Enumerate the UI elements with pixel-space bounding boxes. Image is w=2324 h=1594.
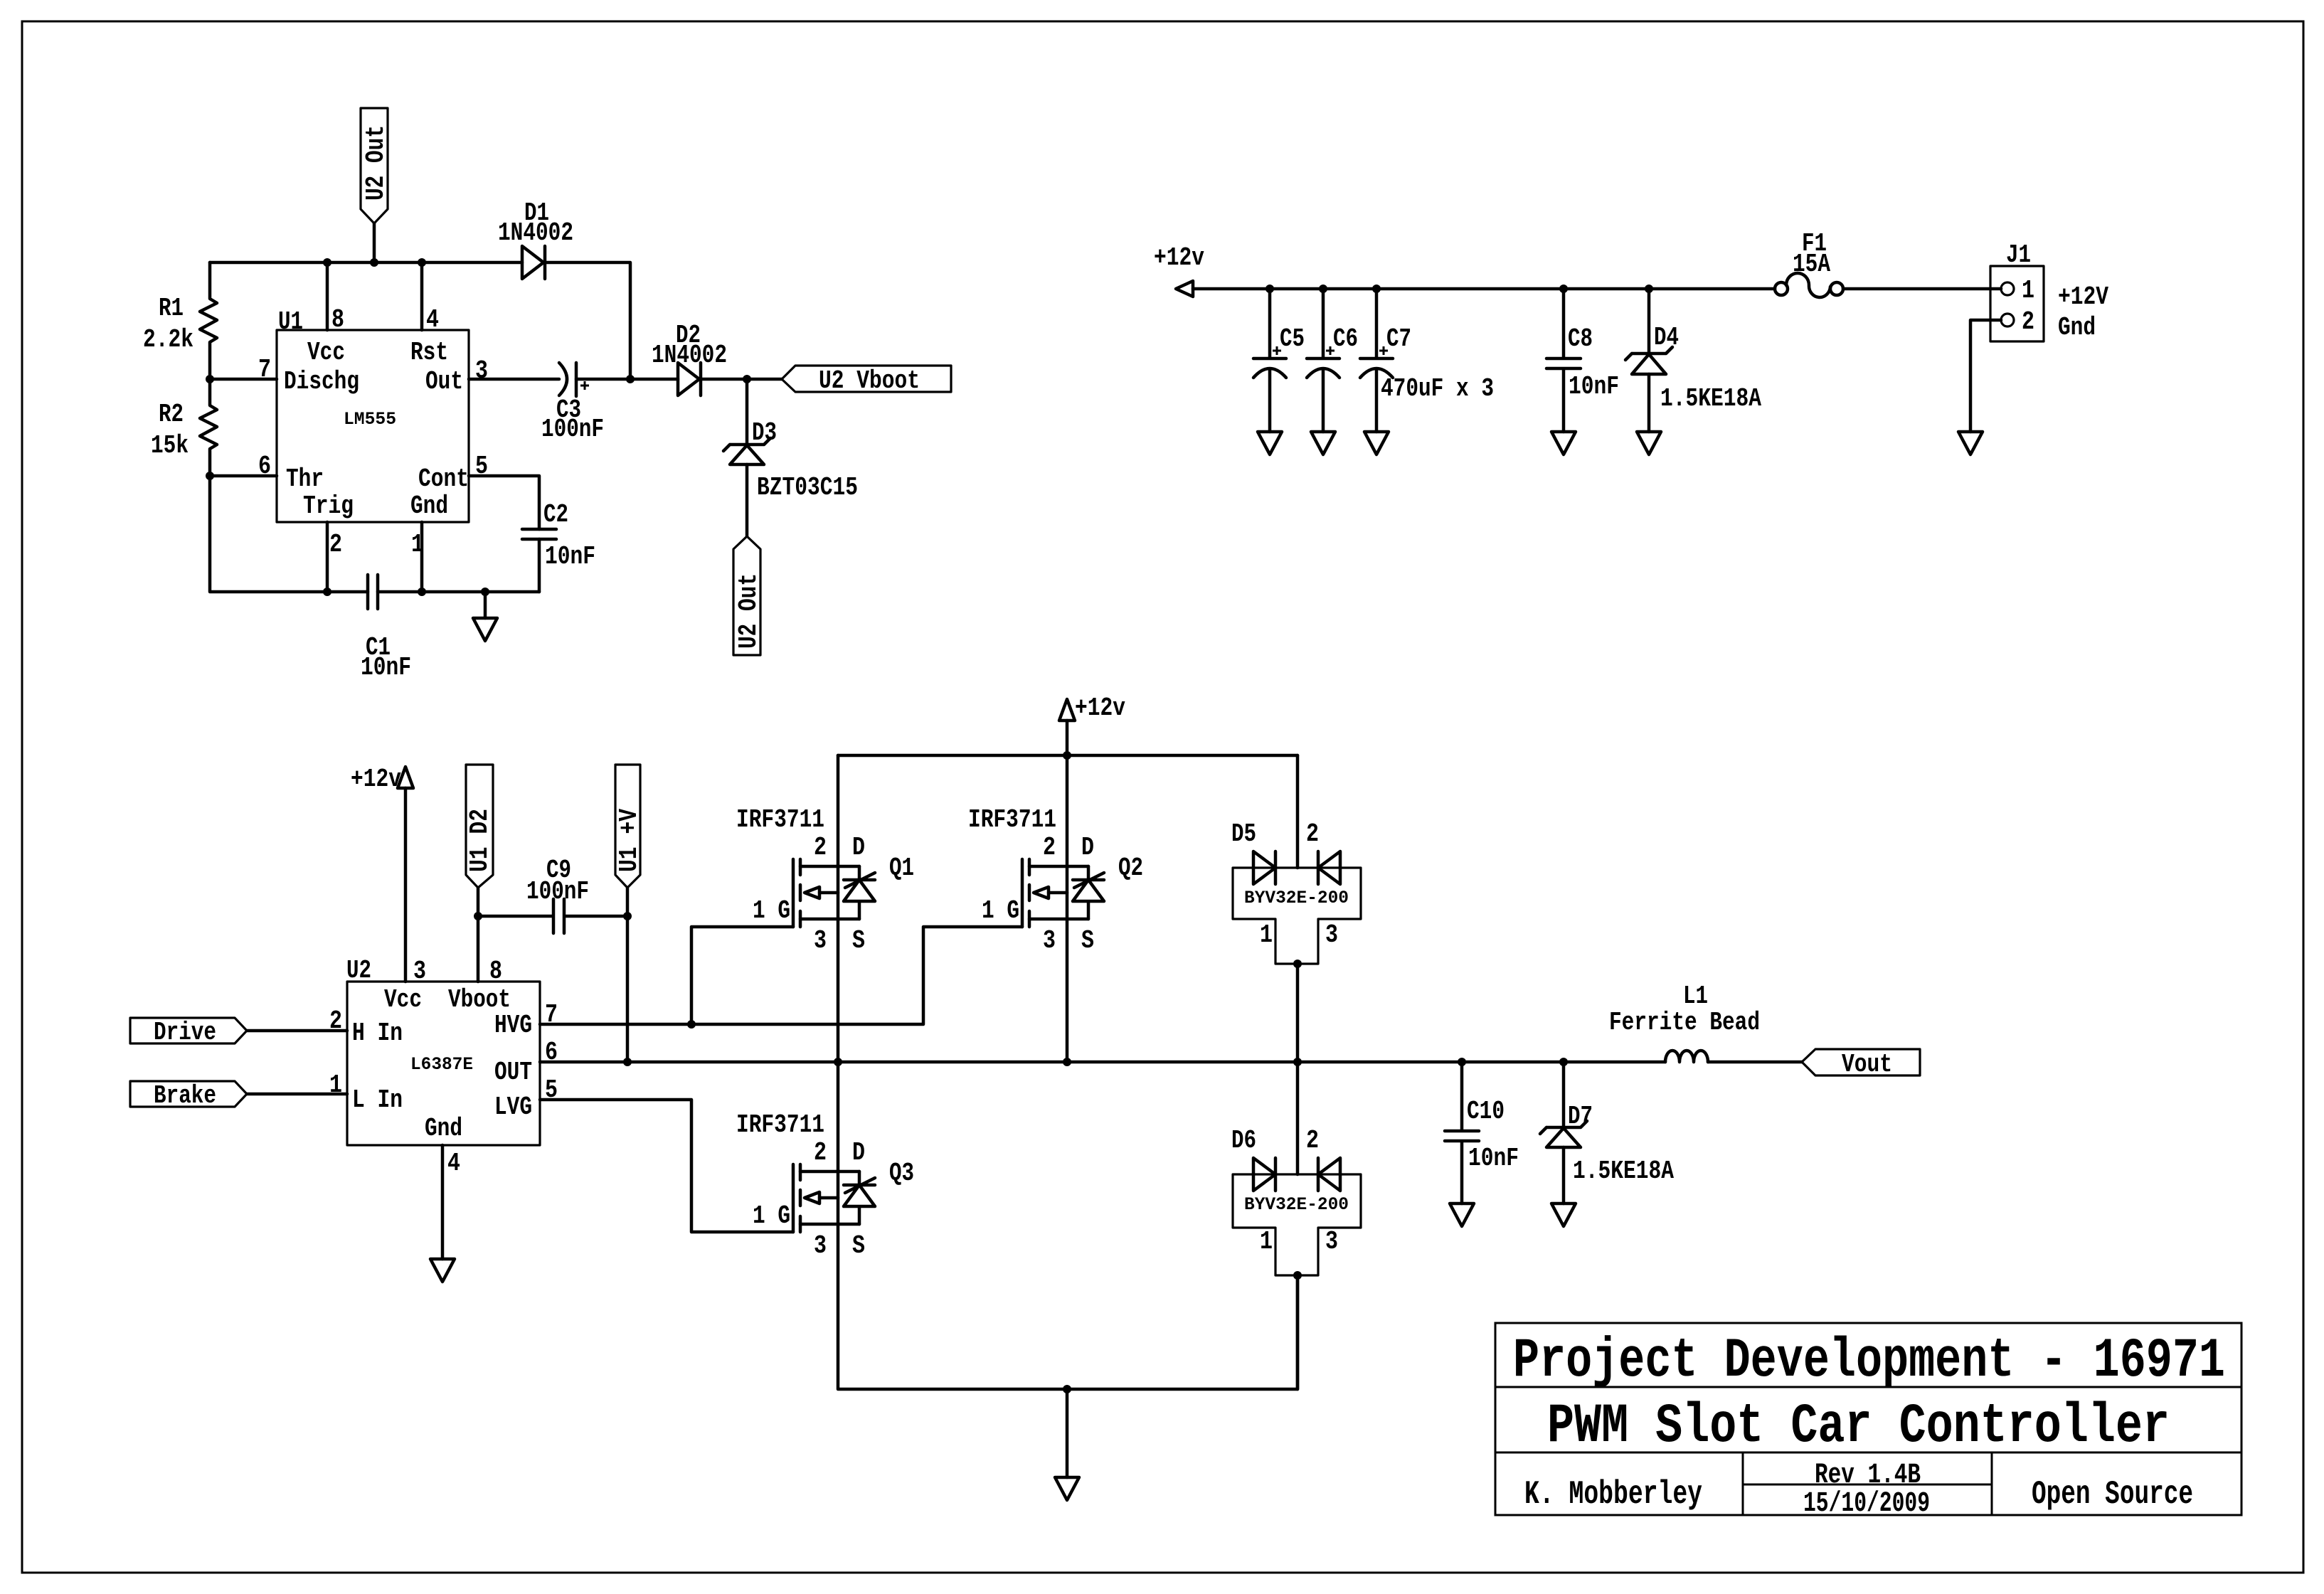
ground (1551, 432, 1576, 455)
transistor Q3 IRF3711 (793, 1164, 800, 1232)
svg-text:S: S (852, 926, 865, 955)
svg-text:C8: C8 (1568, 324, 1593, 354)
resistor R2 15k (200, 379, 217, 476)
capacitor C3 100nF (469, 378, 559, 381)
svg-text:S: S (852, 1231, 865, 1260)
svg-text:1 G: 1 G (982, 896, 1019, 925)
wire Gnd pin4 (441, 1145, 445, 1259)
svg-text:Gnd: Gnd (2058, 313, 2096, 342)
svg-text:1 G: 1 G (753, 1201, 790, 1231)
svg-text:L1: L1 (1683, 982, 1708, 1011)
svg-text:10nF: 10nF (1569, 372, 1619, 401)
net flag U2 Out bottom (733, 536, 760, 655)
svg-text:2: 2 (1306, 1126, 1319, 1155)
wire +12v bus over bridge (838, 754, 1298, 758)
svg-text:U2 Out: U2 Out (734, 573, 763, 649)
wire Brake to pin1 (247, 1093, 347, 1096)
svg-text:Cont: Cont (418, 464, 469, 494)
svg-text:6: 6 (258, 452, 271, 481)
diode D5 BYV32E-200 (1233, 868, 1361, 964)
svg-text:10nF: 10nF (545, 542, 595, 571)
ground (1311, 432, 1335, 455)
svg-text:3: 3 (814, 926, 827, 955)
connector J1 (1990, 266, 2044, 341)
svg-text:3: 3 (413, 957, 426, 986)
svg-text:1: 1 (1260, 1227, 1273, 1256)
svg-text:BYV32E-200: BYV32E-200 (1244, 1194, 1349, 1215)
svg-text:+12v: +12v (1075, 694, 1125, 723)
+12v arrow (398, 767, 413, 788)
transistor Q2 IRF3711 (1022, 859, 1029, 927)
net flag U2 Vboot (747, 378, 782, 381)
wire D6 common to ground bus (1296, 1275, 1300, 1389)
wire J1 pin2 to ground (1970, 320, 2001, 432)
svg-text:LVG: LVG (494, 1093, 532, 1122)
svg-text:IRF3711: IRF3711 (968, 805, 1056, 834)
svg-text:C10: C10 (1467, 1097, 1505, 1126)
net flag U1 +V (615, 765, 640, 888)
svg-text:Ferrite Bead: Ferrite Bead (1609, 1008, 1760, 1037)
svg-text:3: 3 (1325, 1227, 1338, 1256)
wire U1 +V stem to OUT net (626, 888, 630, 1062)
svg-text:OUT: OUT (494, 1058, 532, 1087)
svg-text:+12v: +12v (1154, 243, 1204, 272)
net flag Brake (130, 1081, 247, 1107)
svg-text:D: D (852, 833, 865, 862)
svg-text:15k: 15k (151, 431, 189, 460)
svg-text:Gnd: Gnd (410, 492, 448, 521)
svg-text:Vcc: Vcc (307, 338, 345, 367)
svg-text:2.2k: 2.2k (143, 325, 193, 354)
IC U1 LM555 (277, 330, 469, 522)
svg-text:D3: D3 (752, 418, 777, 447)
svg-text:Gnd: Gnd (425, 1114, 462, 1143)
svg-text:Rev 1.4B: Rev 1.4B (1815, 1460, 1921, 1492)
wire Drive to pin2 (247, 1029, 347, 1033)
capacitor C1 10nF (368, 575, 378, 609)
ground (430, 1259, 455, 1282)
svg-text:K. Mobberley: K. Mobberley (1524, 1476, 1702, 1513)
wire junction dots (206, 258, 1653, 1393)
svg-text:C6: C6 (1333, 324, 1358, 354)
wire fuse to J1 (1843, 287, 2001, 291)
wire Q2 drain-source vertical (1066, 755, 1069, 1062)
capacitor C7 470uF (1360, 289, 1393, 432)
svg-text:1.5KE18A: 1.5KE18A (1660, 384, 1761, 413)
svg-text:C7: C7 (1386, 324, 1411, 354)
svg-text:H In: H In (352, 1019, 403, 1048)
svg-text:Project Development - 16971: Project Development - 16971 (1513, 1330, 2225, 1393)
svg-text:IRF3711: IRF3711 (736, 1110, 824, 1139)
svg-text:2: 2 (814, 833, 827, 862)
svg-text:BYV32E-200: BYV32E-200 (1244, 888, 1349, 908)
svg-text:2: 2 (814, 1138, 827, 1167)
svg-text:4: 4 (447, 1149, 460, 1178)
wire HVG net to Q1 and Q2 gates (540, 927, 1022, 1024)
zener diode D4 1.5KE18A (1625, 289, 1672, 360)
net flag U2 Out top (361, 108, 388, 223)
svg-text:+12V: +12V (2058, 282, 2108, 312)
wire thr pin 6 (210, 474, 277, 478)
svg-text:2: 2 (1306, 819, 1319, 849)
svg-text:Vout: Vout (1842, 1050, 1892, 1079)
zener diode D7 1.5KE18A (1540, 1062, 1587, 1134)
svg-text:L In: L In (352, 1085, 403, 1115)
wire D1 cathode to out node (544, 262, 630, 379)
svg-text:Trig: Trig (303, 492, 354, 521)
capacitor C8 10nF (1546, 289, 1581, 432)
svg-text:2: 2 (329, 530, 342, 559)
resistor R1 2.2k (200, 262, 217, 379)
svg-text:R1: R1 (159, 294, 184, 323)
svg-text:1: 1 (1260, 920, 1273, 950)
capacitor C5 470uF (1253, 289, 1286, 432)
svg-text:1N4002: 1N4002 (652, 341, 727, 370)
svg-text:15/10/2009: 15/10/2009 (1803, 1488, 1930, 1520)
svg-text:D4: D4 (1654, 323, 1679, 352)
svg-text:L6387E: L6387E (410, 1054, 473, 1075)
fuse F1 15A (1775, 282, 1788, 295)
zener diode D3 BZT03C15 (746, 379, 749, 445)
svg-text:U1: U1 (278, 307, 303, 336)
svg-text:R2: R2 (159, 400, 184, 429)
svg-text:3: 3 (1325, 920, 1338, 950)
ground (1055, 1477, 1079, 1500)
net flag Vout (1802, 1049, 1920, 1075)
ground (1258, 432, 1282, 455)
wire D5 pin2 from +12v bus (1296, 755, 1300, 868)
+12v arrow (1059, 699, 1075, 721)
svg-text:BZT03C15: BZT03C15 (757, 473, 858, 502)
svg-text:LM555: LM555 (344, 409, 396, 430)
svg-text:S: S (1081, 926, 1094, 955)
svg-text:1.5KE18A: 1.5KE18A (1573, 1157, 1674, 1186)
svg-text:8: 8 (331, 305, 344, 334)
svg-text:100nF: 100nF (526, 877, 589, 906)
capacitor C6 470uF (1307, 289, 1339, 432)
svg-text:15A: 15A (1793, 250, 1830, 279)
wire LVG net to Q3 gate (540, 1100, 793, 1232)
wire flag stem (373, 223, 376, 262)
svg-text:3: 3 (475, 356, 488, 386)
wire L1 to Vout (1708, 1061, 1802, 1064)
wire Q3 source to ground bus (838, 1062, 1298, 1389)
svg-text:Thr: Thr (286, 464, 324, 494)
svg-text:D7: D7 (1568, 1102, 1593, 1131)
svg-text:2: 2 (2022, 307, 2034, 336)
ground (1958, 432, 1983, 455)
diode D6 BYV32E-200 (1233, 1174, 1361, 1275)
wire left rail to bottom bus (210, 476, 368, 592)
svg-text:1 G: 1 G (753, 896, 790, 925)
wire pin4 stub (420, 262, 424, 330)
wire dischg pin 7 (210, 378, 277, 381)
svg-text:U1 +V: U1 +V (615, 809, 644, 872)
svg-text:2: 2 (1043, 833, 1056, 862)
svg-text:Q3: Q3 (889, 1159, 914, 1188)
svg-text:10nF: 10nF (1468, 1144, 1519, 1173)
svg-text:Vcc: Vcc (384, 985, 422, 1014)
wire pin2 trig stub (326, 522, 329, 592)
svg-text:U1 D2: U1 D2 (465, 809, 494, 872)
svg-text:+12v: +12v (351, 765, 401, 794)
svg-text:Rst: Rst (410, 338, 448, 367)
svg-text:470uF x 3: 470uF x 3 (1381, 374, 1494, 403)
svg-text:3: 3 (814, 1231, 827, 1260)
svg-text:8: 8 (489, 957, 502, 986)
svg-text:D6: D6 (1231, 1126, 1256, 1155)
svg-text:HVG: HVG (494, 1011, 532, 1040)
svg-text:Q2: Q2 (1118, 854, 1143, 883)
svg-text:1N4002: 1N4002 (498, 218, 573, 248)
svg-text:Open Source: Open Source (2032, 1476, 2193, 1513)
svg-text:Dischg: Dischg (284, 367, 359, 396)
wire D5 common to OUT net (1296, 964, 1300, 1062)
capacitor C9 100nF (478, 899, 627, 933)
svg-text:J1: J1 (2006, 240, 2031, 270)
svg-text:D5: D5 (1231, 819, 1256, 849)
wire Q1 drain-source vertical (837, 755, 840, 1062)
wire Vcc pin3 stem (404, 788, 408, 982)
diode D2 1N4002 (630, 378, 678, 381)
svg-text:7: 7 (258, 355, 271, 384)
svg-text:U2: U2 (346, 956, 371, 985)
net flag Drive (130, 1018, 247, 1043)
svg-text:Q1: Q1 (889, 854, 914, 883)
svg-text:PWM Slot Car Controller: PWM Slot Car Controller (1547, 1396, 2170, 1458)
svg-text:Brake: Brake (154, 1081, 216, 1110)
ground (1364, 432, 1389, 455)
svg-text:100nF: 100nF (541, 415, 604, 444)
ground (1450, 1204, 1474, 1226)
svg-text:4: 4 (426, 305, 439, 334)
wire ground stem (1066, 1389, 1069, 1477)
wire D6 pin2 from OUT net (1296, 1062, 1300, 1174)
svg-text:10nF: 10nF (361, 653, 411, 682)
transistor Q1 IRF3711 (793, 859, 800, 927)
net flag U1 D2 (466, 765, 493, 888)
capacitor C2 10nF (522, 529, 556, 539)
svg-text:Drive: Drive (154, 1018, 216, 1047)
wire flag stem to pin8 (477, 888, 480, 982)
svg-text:IRF3711: IRF3711 (736, 805, 824, 834)
svg-text:U2 Vboot: U2 Vboot (819, 366, 920, 395)
svg-text:D: D (852, 1138, 865, 1167)
IC U2 L6387E (347, 982, 540, 1145)
wire pin8 stub (326, 262, 329, 330)
svg-text:D: D (1081, 833, 1094, 862)
ground (1551, 1204, 1576, 1226)
svg-text:U2 Out: U2 Out (361, 125, 391, 201)
svg-text:C2: C2 (543, 500, 568, 529)
title block frame (1495, 1323, 2241, 1515)
svg-text:1: 1 (2022, 276, 2034, 305)
ground (484, 592, 487, 618)
diode D1 1N4002 (522, 246, 545, 279)
svg-text:Out: Out (425, 367, 463, 396)
svg-text:Vboot: Vboot (448, 985, 511, 1014)
svg-text:3: 3 (1043, 926, 1056, 955)
wire cont pin5 to C2 (469, 476, 539, 529)
wire +12v rail (1193, 287, 1775, 291)
wire +V top bus (210, 261, 522, 265)
ground (1637, 432, 1661, 455)
wire OUT net (540, 1061, 1665, 1064)
svg-text:C5: C5 (1280, 324, 1305, 354)
inductor L1 ferrite bead (1665, 1051, 1708, 1062)
capacitor C10 10nF (1445, 1062, 1479, 1204)
+12v rail arrow (1176, 281, 1193, 297)
wire pin1 gnd stub (420, 522, 424, 592)
